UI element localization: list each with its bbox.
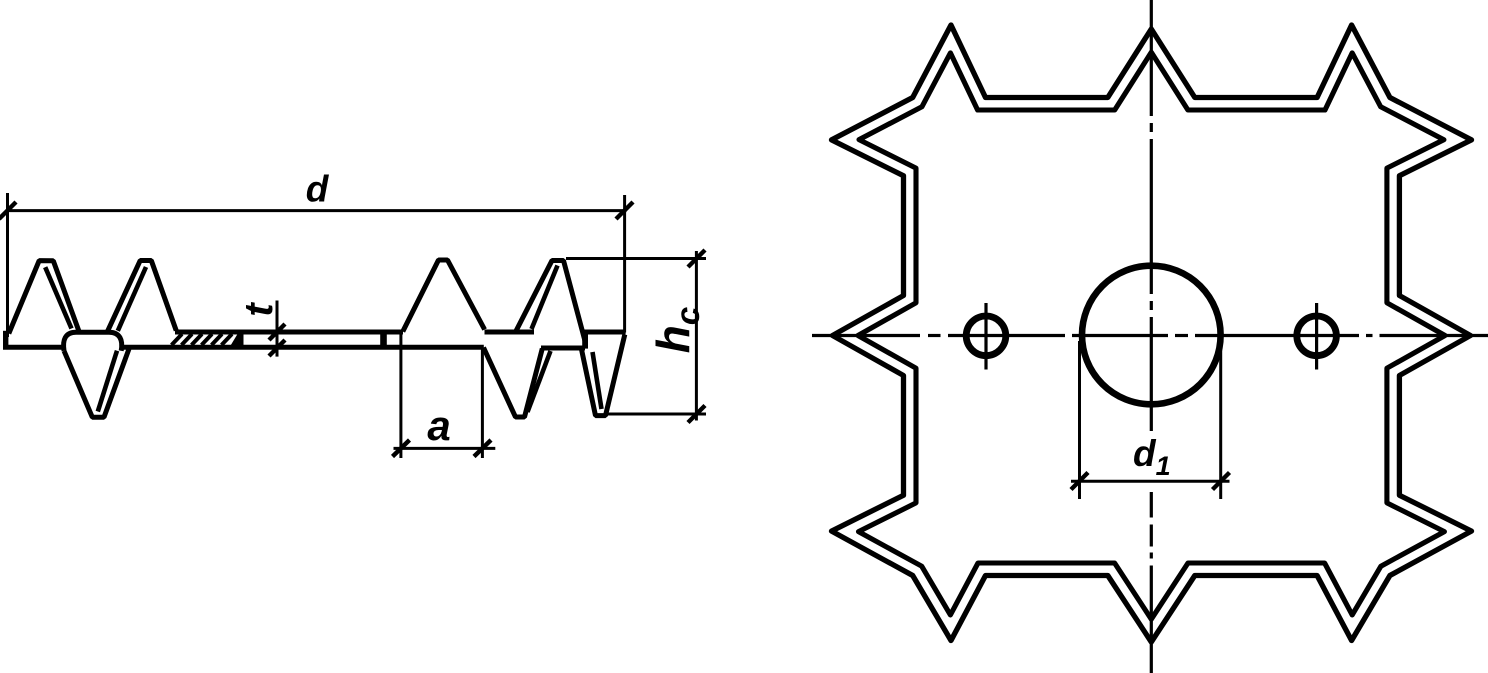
dimension hc line	[695, 251, 698, 421]
section cut solid end bar	[230, 330, 244, 347]
dimension hc extension line bottom	[608, 413, 707, 416]
tooth 3 up outline	[403, 260, 485, 332]
svg-text:a: a	[427, 402, 450, 449]
dimension a tick left	[393, 440, 410, 457]
dimension d line	[7, 209, 627, 212]
svg-text:d1: d1	[1133, 433, 1171, 481]
dimension d tick right	[616, 202, 633, 219]
dimension a extension line right	[481, 349, 484, 458]
tooth 1 up outline	[9, 261, 79, 334]
svg-text:t: t	[237, 302, 281, 317]
horizontal centerline	[812, 334, 1488, 337]
dimension d1 tick right	[1213, 473, 1230, 490]
central hole d1 circle	[1082, 266, 1221, 405]
plate bottom edge segment 2	[121, 345, 484, 350]
down tooth 1 outline	[64, 349, 129, 417]
plate bottom edge segment 1	[3, 345, 66, 350]
end down tooth outline	[581, 335, 625, 416]
small hole left centerline	[984, 303, 987, 370]
end down tooth left edge inner line	[593, 352, 602, 409]
down tooth 1 right edge inner line	[98, 351, 117, 412]
tooth 2 left edge inner line	[118, 267, 146, 331]
dimension a line	[394, 447, 496, 450]
dimension hc tick bottom	[688, 406, 705, 423]
small hole right	[1297, 316, 1337, 356]
dimension d extension line right	[623, 195, 626, 333]
dimension hc extension line top	[566, 257, 706, 260]
plate outline inner	[858, 52, 1445, 619]
small hole right centerline	[1315, 303, 1318, 370]
tooth 4 up outline	[516, 261, 585, 342]
small hole left	[966, 316, 1006, 356]
vertical centerline	[1150, 0, 1153, 673]
dimension d tick left	[0, 202, 16, 219]
tooth 4 left edge inner line	[532, 266, 558, 330]
dimension a tick right	[474, 440, 491, 457]
dimension d1 tick left	[1071, 473, 1088, 490]
section cut bar at tooth 4 root	[582, 331, 588, 349]
down tooth 1 bend dome	[64, 332, 122, 351]
plate outline outer	[832, 25, 1472, 642]
dimension a extension line left	[399, 333, 402, 458]
dimension d1 extension line left	[1078, 341, 1081, 499]
svg-text:hc: hc	[647, 307, 706, 353]
svg-text:d: d	[306, 169, 330, 210]
tooth 1 right edge inner line	[45, 267, 71, 328]
dimension t line	[276, 301, 279, 357]
dimension hc tick top	[688, 250, 705, 267]
plate bottom edge valley between down teeth	[541, 346, 585, 351]
plate left end face	[3, 331, 8, 348]
plate top edge valley between teeth 3 and 4	[485, 330, 535, 335]
dimension t tick top	[269, 324, 285, 340]
tooth 2 up outline	[107, 261, 176, 332]
plate top edge segment 1	[175, 330, 403, 335]
dimension t tick bottom	[269, 340, 285, 356]
dimension d1 extension line right	[1219, 341, 1222, 499]
section cut bar at tooth 3 root	[380, 331, 387, 349]
plate top edge segment right of tooth 4	[582, 330, 626, 335]
section hatching	[172, 334, 233, 345]
dimension d1 line	[1071, 480, 1230, 483]
down tooth A outline	[484, 348, 543, 418]
down tooth A right edge inner line	[528, 351, 551, 412]
dimension d extension line left	[6, 193, 9, 337]
